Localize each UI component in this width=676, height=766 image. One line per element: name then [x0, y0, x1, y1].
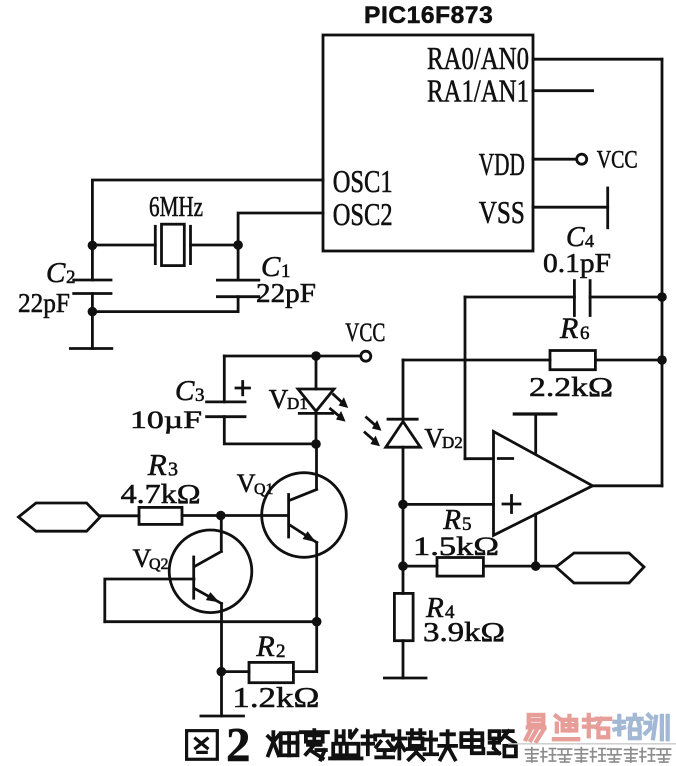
svg-text:0.1pF: 0.1pF — [543, 248, 611, 278]
wire feedback left vertical — [464, 297, 467, 459]
resistor R6 — [550, 351, 595, 370]
svg-text:RA1/AN1: RA1/AN1 — [427, 73, 529, 109]
VSS termination bar — [606, 188, 609, 228]
svg-text:VCC: VCC — [345, 318, 385, 347]
ground bar under R4 — [384, 677, 426, 680]
resistor R3 — [139, 507, 182, 524]
wire C1 bottom branch — [237, 297, 240, 312]
node junction VQ1 emitter to base strap — [312, 617, 322, 627]
wire R4 top lead — [402, 566, 405, 593]
watermark logo 易迪拓培训 (drawn strokes) — [526, 715, 668, 741]
wire R5 left lead — [403, 565, 437, 568]
svg-text:4.7kΩ: 4.7kΩ — [121, 479, 201, 509]
wire VSS pin — [533, 206, 608, 209]
wire R5 right to output hexagon — [483, 565, 556, 568]
emission arrow 2 of VD1 — [331, 409, 346, 422]
wire C3 bottom branch — [224, 417, 316, 444]
svg-text:2: 2 — [66, 267, 76, 288]
op-amp U2 triangle — [494, 432, 593, 536]
wire VQ2 emitter drop — [220, 604, 223, 717]
svg-text:2: 2 — [226, 717, 251, 766]
node junction VD1 anode at VCC wire — [311, 351, 321, 361]
wire base strap bottom — [105, 620, 317, 623]
svg-text:OSC1: OSC1 — [333, 163, 393, 199]
wire VQ1 collector riser — [315, 444, 318, 489]
node junction R5 left — [398, 561, 408, 571]
wire VDD pin — [533, 158, 576, 161]
wire bottom cap bus — [92, 310, 238, 313]
svg-text:10µF: 10µF — [130, 407, 202, 434]
ground bar under VQ2 emitter — [201, 715, 244, 718]
node junction R6 right on rail — [657, 355, 667, 365]
node junction crystal right — [233, 240, 243, 250]
node junction crystal left — [88, 241, 98, 251]
svg-text:PIC16F873: PIC16F873 — [364, 2, 493, 29]
transistor VQ1 — [262, 473, 347, 558]
svg-text:R: R — [559, 312, 578, 345]
wire C3 top branch — [223, 356, 226, 402]
terminal VCC mid circle — [361, 351, 371, 361]
transistor VQ2 — [169, 530, 252, 613]
wire to inverting input — [465, 457, 494, 460]
wire C1 top branch — [237, 245, 240, 280]
wire C2 bottom branch — [91, 294, 94, 312]
svg-text:2: 2 — [276, 641, 286, 662]
wire R3 to VQ1 base — [182, 514, 288, 517]
incident arrow 1 of VD2 — [367, 418, 382, 431]
op-amp minus sign — [498, 457, 512, 460]
wire right rail vertical — [661, 59, 664, 486]
wire C2 top branch — [91, 246, 94, 280]
caption text: 图 2 烟雾监控模块电路 (drawn strokes) — [187, 731, 218, 760]
crystal Y1 6MHz — [155, 224, 190, 265]
node junction C4 right on rail — [657, 292, 667, 302]
watermark tagline 射频和天线设计专家 (drawn strokes) — [526, 748, 671, 763]
wire crystal right lead — [191, 244, 239, 247]
wire input to R3 — [100, 514, 139, 517]
svg-text:VDD: VDD — [479, 146, 525, 182]
svg-text:2.2kΩ: 2.2kΩ — [529, 372, 613, 402]
node junction base node — [216, 511, 226, 521]
wire op-amp output to rail — [593, 484, 662, 487]
svg-text:3: 3 — [168, 459, 178, 481]
svg-text:22pF: 22pF — [18, 288, 70, 318]
photodiode VD2 — [386, 360, 421, 504]
svg-text:VCC: VCC — [597, 147, 638, 174]
wire C2 ground stem — [91, 312, 94, 349]
resistor R2 — [249, 662, 293, 682]
svg-text:C: C — [46, 257, 66, 289]
wire VD2 node to R6 — [403, 359, 550, 362]
IC U1 PIC16F873 box — [323, 35, 533, 251]
svg-text:V: V — [237, 469, 256, 498]
svg-text:D1: D1 — [287, 394, 308, 413]
svg-text:6MHz: 6MHz — [149, 192, 203, 223]
wire RA1 stub — [533, 89, 593, 92]
connector hexagon output — [556, 553, 644, 583]
op-amp plus sign — [503, 496, 520, 513]
terminal VCC at VDD — [577, 154, 587, 164]
svg-text:22pF: 22pF — [256, 278, 316, 308]
capacitor C2 — [74, 280, 111, 294]
wire OSC1 to crystal — [92, 180, 323, 246]
op-amp power tee — [514, 414, 556, 454]
resistor R4 — [394, 593, 413, 640]
svg-text:V: V — [269, 384, 289, 414]
svg-text:R: R — [147, 447, 167, 482]
node junction VD2 to plus input — [398, 500, 408, 510]
svg-text:3: 3 — [195, 385, 205, 406]
svg-text:C: C — [175, 375, 195, 407]
capacitor C3 polarized — [207, 402, 245, 417]
wire to non-inverting input — [403, 503, 494, 506]
wire VQ1 emitter drop — [315, 543, 318, 672]
wire VD2 node down to R5 node — [402, 504, 405, 566]
watermark separator line — [508, 743, 676, 745]
wire R2 left lead — [221, 670, 249, 673]
capacitor C1 — [217, 280, 258, 297]
wire OSC2 to crystal right — [238, 213, 323, 245]
node junction VD1 cathode — [311, 439, 321, 449]
wire R2 right lead up to emitter line — [293, 670, 316, 673]
emission arrow 1 of VD1 — [334, 395, 349, 409]
LED VD1 — [298, 356, 334, 444]
capacitor C4 — [465, 281, 662, 316]
wire VQ2 base strap left — [105, 579, 194, 622]
svg-text:RA0/AN0: RA0/AN0 — [427, 40, 529, 76]
svg-text:6: 6 — [580, 323, 590, 344]
svg-text:1.2kΩ: 1.2kΩ — [232, 683, 319, 714]
node junction under op-amp — [531, 561, 541, 571]
wire R6 right to rail — [595, 359, 662, 362]
node junction C2 bottom — [88, 307, 98, 317]
wire crystal left lead — [92, 244, 155, 247]
ground bar under C2 — [70, 347, 111, 350]
svg-text:D2: D2 — [442, 433, 463, 452]
svg-text:OSC2: OSC2 — [333, 196, 393, 232]
svg-text:VSS: VSS — [479, 194, 525, 230]
wire RA0 pin to right rail — [533, 58, 662, 61]
svg-text:Q2: Q2 — [149, 556, 169, 573]
svg-text:3.9kΩ: 3.9kΩ — [423, 617, 505, 647]
incident arrow 2 of VD2 — [365, 433, 380, 447]
svg-text:R: R — [255, 630, 274, 663]
plus sign of C3 — [236, 382, 250, 395]
wire R4 bottom lead — [402, 641, 405, 678]
wire VCC node horizontal — [224, 355, 358, 358]
connector hexagon input — [19, 503, 101, 531]
svg-text:Q1: Q1 — [254, 481, 274, 498]
wire op-amp underside branch — [534, 514, 537, 566]
resistor R5 — [437, 558, 483, 577]
wire VQ2 collector riser — [220, 516, 223, 552]
node junction R2 left — [217, 667, 227, 677]
svg-text:1.5kΩ: 1.5kΩ — [413, 532, 499, 561]
